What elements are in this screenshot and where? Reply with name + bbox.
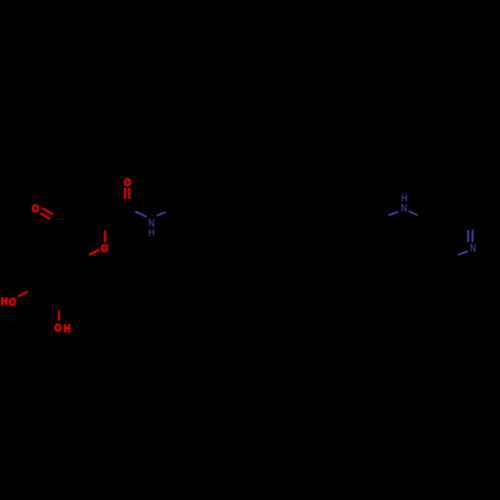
svg-text:O: O bbox=[54, 323, 61, 335]
svg-text:N: N bbox=[470, 242, 476, 254]
svg-text:N: N bbox=[401, 203, 407, 215]
svg-text:H: H bbox=[64, 323, 71, 335]
svg-text:H: H bbox=[1, 296, 8, 308]
svg-text:O: O bbox=[32, 204, 39, 216]
svg-text:H: H bbox=[148, 227, 154, 239]
svg-text:O: O bbox=[9, 297, 16, 309]
svg-text:O: O bbox=[124, 177, 131, 189]
svg-text:O: O bbox=[101, 243, 108, 255]
